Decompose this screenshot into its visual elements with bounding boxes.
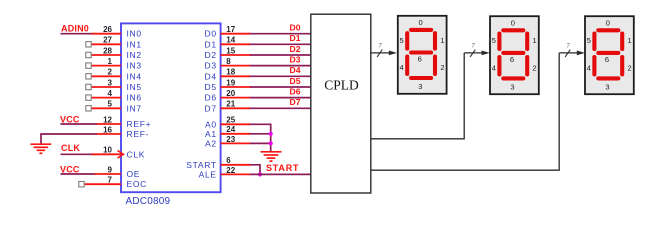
pin 20 D6 (right)	[205, 89, 251, 103]
wire D2 bus to CPLD	[250, 54, 312, 56]
pin 21 D7 (right)	[205, 100, 251, 114]
svg-text:START: START	[266, 163, 299, 173]
svg-text:12: 12	[103, 115, 112, 124]
pin 2 IN4 (left)	[86, 68, 142, 82]
svg-text:IN4: IN4	[127, 71, 142, 81]
svg-text:START: START	[186, 160, 217, 170]
svg-text:4: 4	[400, 63, 404, 72]
pin 7 EOC (left)	[79, 176, 147, 190]
display DS2 7-segment	[490, 16, 539, 94]
wire D7 bus to CPLD	[250, 107, 312, 109]
svg-text:IN2: IN2	[127, 50, 142, 60]
pin 18 D4 (right)	[205, 68, 251, 82]
pin 25 A0 (right)	[205, 116, 251, 130]
svg-text:23: 23	[226, 135, 235, 144]
svg-text:27: 27	[103, 36, 112, 45]
pin 15 D2 (right)	[205, 46, 251, 60]
svg-text:ADC0809: ADC0809	[126, 196, 171, 207]
wire D3 bus to CPLD	[250, 65, 312, 67]
svg-text:D5: D5	[205, 82, 217, 92]
svg-text:7: 7	[108, 176, 113, 185]
svg-text:D0: D0	[290, 23, 301, 33]
svg-text:10: 10	[103, 146, 112, 155]
svg-text:1: 1	[533, 36, 537, 45]
pin 16 REF- (left)	[97, 125, 150, 139]
ground symbol GND1	[30, 144, 51, 153]
svg-text:VCC: VCC	[60, 114, 80, 124]
wire bus CPLD to display DS2 (7)	[371, 42, 490, 138]
pin 14 D1 (right)	[205, 36, 251, 50]
svg-text:25: 25	[226, 116, 235, 125]
svg-text:D3: D3	[205, 61, 217, 71]
svg-text:IN3: IN3	[127, 61, 142, 71]
wire bus CPLD to display DS1 (7)	[371, 42, 397, 57]
svg-text:6: 6	[226, 156, 231, 165]
svg-text:18: 18	[226, 68, 235, 77]
svg-text:6: 6	[510, 55, 514, 64]
svg-text:OE: OE	[127, 169, 141, 179]
junction A1	[269, 132, 273, 136]
svg-text:28: 28	[103, 46, 112, 55]
svg-text:1: 1	[628, 36, 632, 45]
svg-text:3: 3	[418, 82, 422, 91]
svg-text:REF+: REF+	[127, 119, 152, 129]
svg-text:IN0: IN0	[127, 29, 142, 39]
svg-text:20: 20	[226, 89, 235, 98]
svg-text:ADIN0: ADIN0	[61, 24, 89, 34]
svg-text:CLK: CLK	[61, 143, 80, 153]
svg-text:REF-: REF-	[127, 129, 150, 139]
pin 27 IN1 (left)	[86, 36, 142, 50]
svg-text:D0: D0	[205, 29, 217, 39]
svg-text:17: 17	[226, 25, 235, 34]
svg-text:19: 19	[226, 78, 235, 87]
svg-text:D2: D2	[205, 50, 217, 60]
svg-text:ALE: ALE	[199, 169, 217, 179]
display DS1 7-segment	[398, 16, 447, 94]
wire ADIN0 to pin 26	[61, 33, 92, 35]
IC U1 ADC0809 body	[121, 23, 221, 192]
wire D4 bus to CPLD	[250, 75, 312, 77]
svg-text:3: 3	[605, 83, 609, 92]
pin 8 D3 (right)	[205, 57, 251, 71]
pin 3 IN5 (left)	[86, 78, 142, 92]
wire D5 bus to CPLD	[250, 86, 312, 88]
svg-text:0: 0	[606, 19, 610, 28]
svg-text:4: 4	[108, 89, 113, 98]
wire A2 to riser	[250, 142, 271, 144]
svg-text:24: 24	[226, 125, 235, 134]
svg-text:4: 4	[587, 64, 591, 73]
svg-text:2: 2	[628, 64, 632, 73]
svg-text:IN7: IN7	[127, 103, 142, 113]
svg-text:0: 0	[419, 18, 423, 27]
pin 28 IN2 (left)	[86, 46, 142, 60]
pin 24 A1 (right)	[205, 125, 251, 139]
svg-text:21: 21	[226, 100, 235, 109]
pin 1 IN3 (left)	[86, 57, 142, 71]
wire D6 bus to CPLD	[250, 97, 312, 99]
wire D1 bus to CPLD	[250, 43, 312, 45]
svg-text:D4: D4	[205, 71, 217, 81]
svg-text:2: 2	[533, 64, 537, 73]
svg-text:D6: D6	[205, 93, 217, 103]
svg-text:D3: D3	[290, 54, 301, 64]
svg-text:5: 5	[400, 36, 404, 45]
wire pin 6 START down to ALE	[250, 165, 260, 175]
svg-text:D1: D1	[290, 33, 301, 43]
ground symbol GND2	[261, 152, 282, 161]
wire VCC to pin 9	[61, 173, 95, 175]
svg-text:5: 5	[587, 36, 591, 45]
pin 6 START (right)	[186, 156, 250, 170]
wire bus CPLD to display DS3 (7)	[371, 42, 585, 170]
svg-text:0: 0	[511, 19, 515, 28]
svg-text:4: 4	[492, 64, 496, 73]
svg-text:D1: D1	[205, 39, 217, 49]
svg-text:2: 2	[108, 68, 113, 77]
pin 9 OE (left)	[94, 165, 140, 179]
svg-text:14: 14	[226, 36, 235, 45]
junction START/ALE	[258, 172, 262, 176]
svg-text:CLK: CLK	[127, 149, 146, 159]
pin 23 A2 (right)	[205, 135, 251, 149]
svg-text:IN5: IN5	[127, 82, 142, 92]
svg-text:A2: A2	[205, 138, 217, 148]
svg-text:5: 5	[492, 36, 496, 45]
svg-text:1: 1	[108, 57, 113, 66]
svg-text:8: 8	[226, 57, 231, 66]
pin 5 IN7 (left)	[86, 100, 142, 114]
svg-text:15: 15	[226, 46, 235, 55]
svg-text:9: 9	[108, 165, 113, 174]
svg-text:D2: D2	[290, 44, 301, 54]
pin 22 ALE (right)	[199, 166, 251, 180]
junction A2	[269, 141, 273, 145]
svg-text:A0: A0	[205, 119, 217, 129]
svg-text:2: 2	[440, 63, 444, 72]
IC U2 CPLD body	[311, 14, 371, 193]
svg-text:D7: D7	[290, 97, 301, 107]
svg-text:5: 5	[108, 100, 113, 109]
svg-text:16: 16	[103, 125, 112, 134]
svg-text:3: 3	[510, 83, 514, 92]
wire A1 to riser	[250, 133, 271, 135]
svg-text:EOC: EOC	[127, 179, 148, 189]
pin 12 REF+ (left)	[97, 115, 152, 129]
pin 17 D0 (right)	[205, 25, 251, 39]
wire A0 to ground riser	[250, 124, 271, 151]
wire D0 bus to CPLD	[250, 33, 312, 35]
pin 10 CLK (left)	[91, 146, 145, 160]
wire CLK to pin 10	[61, 153, 92, 155]
display DS3 7-segment	[585, 16, 634, 94]
svg-text:IN1: IN1	[127, 39, 142, 49]
pin 26 IN0 (left)	[91, 25, 142, 39]
svg-text:D5: D5	[290, 76, 301, 86]
wire ALE net START to CPLD	[250, 173, 312, 175]
svg-text:D6: D6	[290, 86, 301, 96]
pin 4 IN6 (left)	[86, 89, 142, 103]
svg-text:22: 22	[226, 166, 235, 175]
svg-text:A1: A1	[205, 129, 217, 139]
svg-text:26: 26	[103, 25, 112, 34]
svg-text:D4: D4	[290, 65, 301, 75]
pin 19 D5 (right)	[205, 78, 251, 92]
svg-text:3: 3	[108, 78, 113, 87]
svg-text:CPLD: CPLD	[324, 78, 359, 93]
wire pin 16 REF- to ground	[41, 134, 97, 144]
svg-text:6: 6	[418, 54, 422, 63]
svg-text:VCC: VCC	[60, 164, 80, 174]
svg-text:IN6: IN6	[127, 93, 142, 103]
svg-text:6: 6	[605, 55, 609, 64]
svg-text:1: 1	[440, 36, 444, 45]
svg-text:D7: D7	[205, 103, 217, 113]
wire VCC to pin 12	[61, 123, 98, 125]
